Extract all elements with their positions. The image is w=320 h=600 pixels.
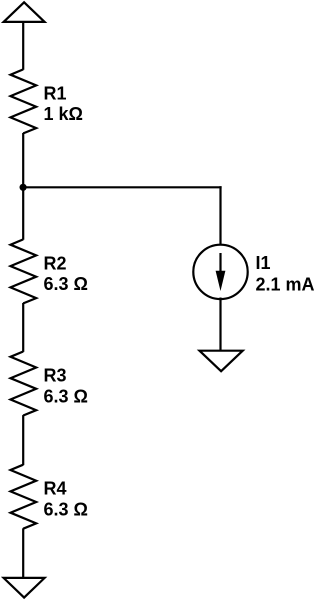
svg-text:1 kΩ: 1 kΩ (44, 104, 83, 124)
node junction dot (20, 184, 27, 191)
svg-text:R4: R4 (44, 479, 67, 499)
wire I1 to ground (219, 298, 221, 352)
port arrow (up triangle) top (4, 2, 45, 22)
current source I1 circle (193, 245, 247, 299)
svg-text:6.3 Ω: 6.3 Ω (44, 499, 88, 519)
ground (down triangle) under I1 (200, 351, 243, 372)
resistor R4 (11, 465, 37, 529)
resistor R1 (11, 69, 37, 133)
resistor R3 (11, 352, 37, 416)
svg-text:6.3 Ω: 6.3 Ω (44, 274, 88, 294)
wire R3 to R4 (22, 415, 24, 465)
wire down to I1 (219, 186, 221, 245)
resistor R2 (11, 239, 37, 303)
svg-text:R1: R1 (44, 83, 67, 103)
I1 arrowhead (216, 271, 226, 291)
wire R4 to bottom port (22, 528, 24, 578)
svg-text:I1: I1 (256, 253, 271, 273)
svg-text:R2: R2 (44, 253, 67, 273)
wire R2 to R3 (22, 303, 24, 352)
svg-text:R3: R3 (44, 366, 67, 386)
I1 arrow shaft (219, 253, 221, 278)
port arrow (down triangle) bottom (4, 578, 45, 598)
svg-text:6.3 Ω: 6.3 Ω (44, 386, 88, 406)
wire node to right (23, 186, 222, 188)
svg-text:2.1 mA: 2.1 mA (256, 275, 315, 295)
wire top to R1 (22, 23, 24, 70)
wire R1 to R2 (22, 133, 24, 240)
